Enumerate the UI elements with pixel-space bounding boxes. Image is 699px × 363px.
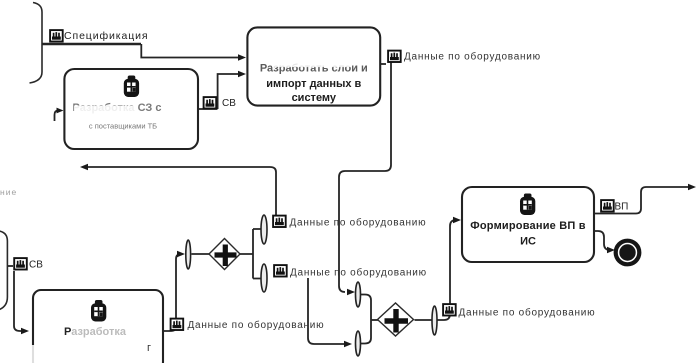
svg-text:Данные по оборудованию: Данные по оборудованию	[290, 217, 427, 229]
svg-text:СВ: СВ	[222, 98, 236, 109]
svg-text:Формирование ВП в: Формирование ВП в	[470, 220, 585, 232]
svg-text:Спецификация: Спецификация	[64, 30, 149, 42]
svg-text:Данные по оборудованию: Данные по оборудованию	[188, 319, 325, 331]
svg-text:г: г	[147, 342, 151, 354]
svg-text:Данные по оборудованию: Данные по оборудованию	[459, 307, 596, 319]
svg-text:Разработка: Разработка	[64, 326, 127, 338]
svg-text:ние: ние	[0, 187, 17, 197]
svg-text:Данные по оборудованию: Данные по оборудованию	[404, 51, 541, 63]
svg-text:ВП: ВП	[615, 202, 629, 213]
svg-text:СВ: СВ	[29, 260, 43, 271]
svg-text:систему: систему	[292, 92, 337, 104]
svg-text:Данные по оборудованию: Данные по оборудованию	[290, 267, 427, 279]
svg-text:с поставщиками ТБ: с поставщиками ТБ	[89, 122, 157, 131]
svg-text:импорт данных в: импорт данных в	[266, 78, 361, 90]
svg-text:ИС: ИС	[520, 236, 536, 248]
